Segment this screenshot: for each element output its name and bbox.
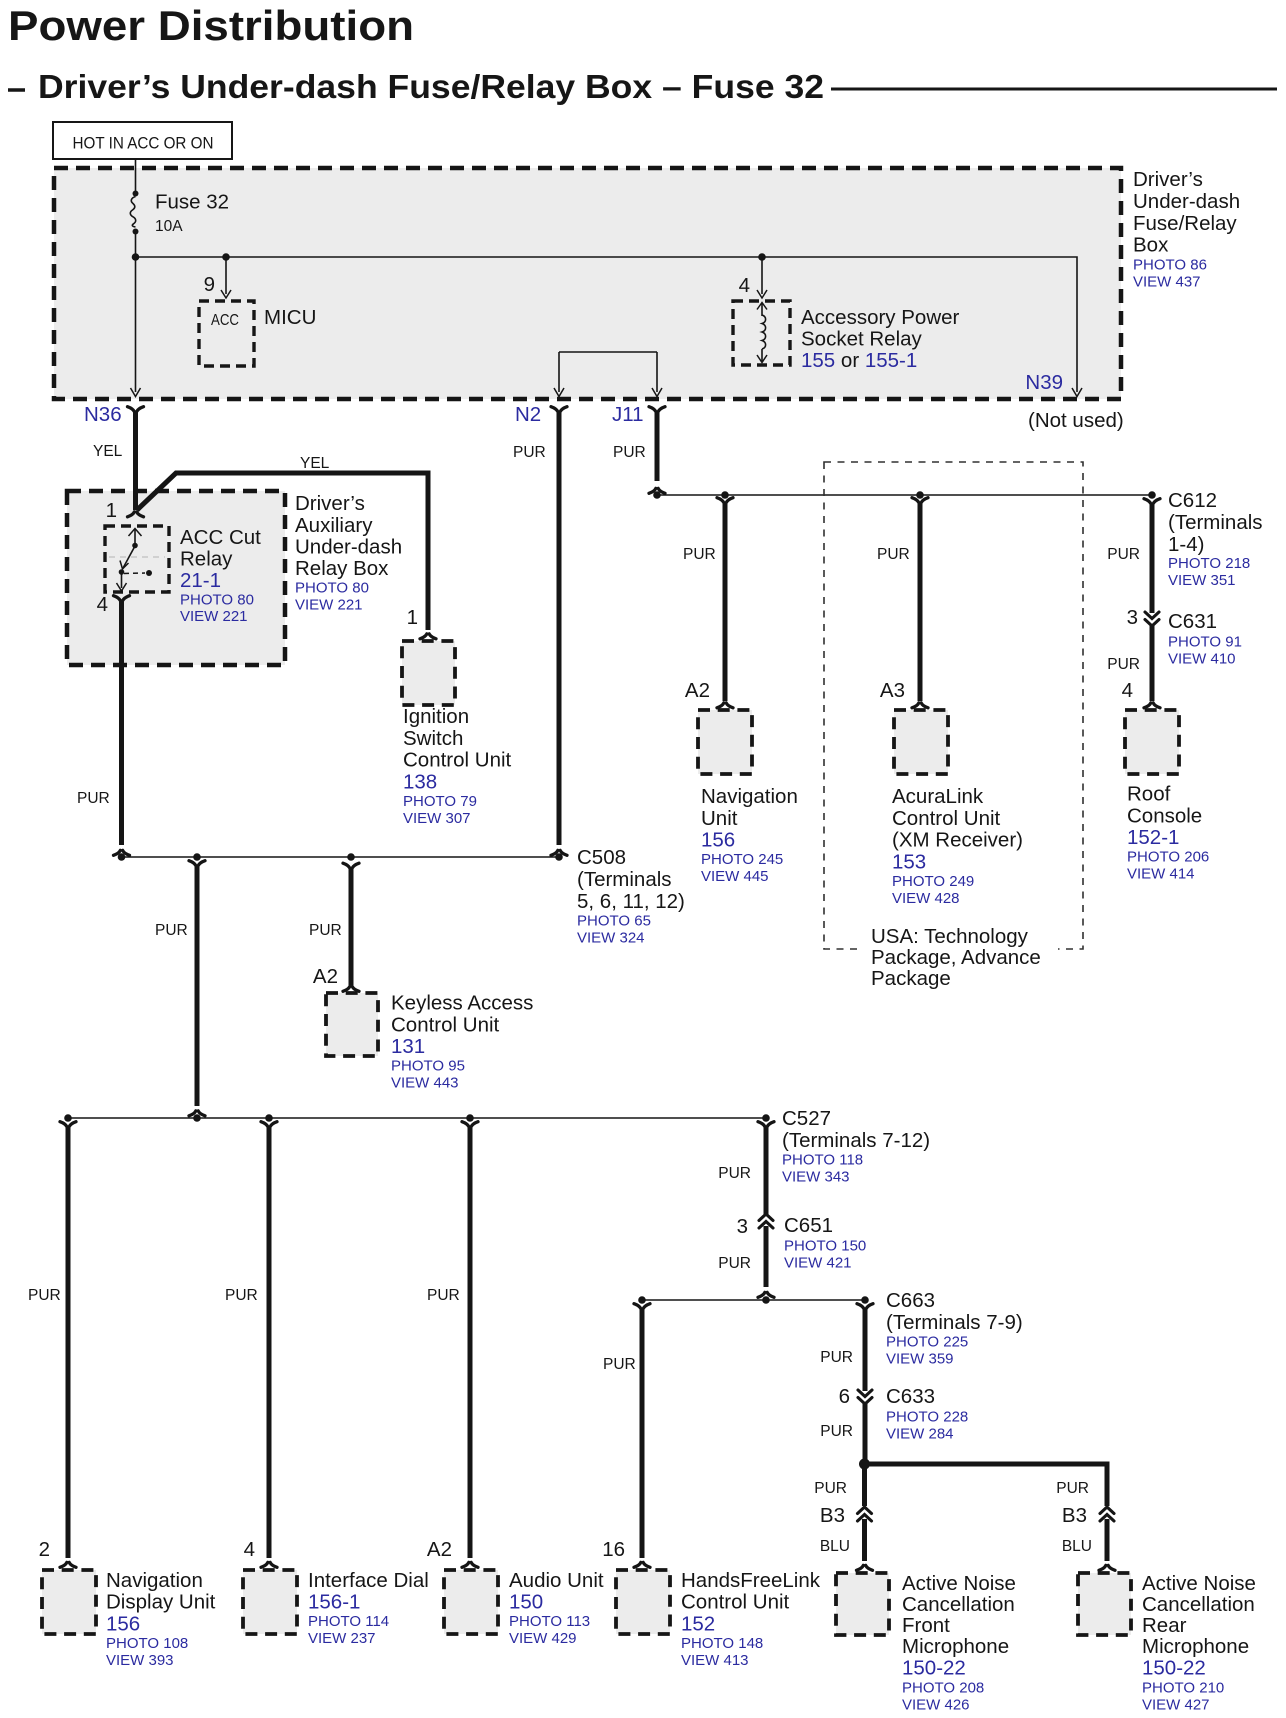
svg-text:VIEW 351: VIEW 351 bbox=[1168, 572, 1236, 589]
svg-text:Socket Relay: Socket Relay bbox=[801, 328, 923, 351]
svg-text:VIEW 437: VIEW 437 bbox=[1133, 274, 1201, 291]
svg-text:Package, Advance: Package, Advance bbox=[871, 946, 1041, 969]
svg-text:C631: C631 bbox=[1168, 610, 1217, 633]
svg-text:150-22: 150-22 bbox=[1142, 1657, 1206, 1680]
svg-text:VIEW 410: VIEW 410 bbox=[1168, 651, 1236, 668]
C527 labels bbox=[782, 1107, 930, 1186]
svg-text:VIEW 221: VIEW 221 bbox=[295, 597, 363, 614]
svg-text:VIEW 221: VIEW 221 bbox=[180, 608, 248, 625]
svg-text:A3: A3 bbox=[880, 679, 905, 702]
svg-text:150-22: 150-22 bbox=[902, 1657, 966, 1680]
svg-text:B3: B3 bbox=[820, 1504, 845, 1527]
svg-text:PHOTO 79: PHOTO 79 bbox=[403, 793, 477, 810]
svg-text:Ignition: Ignition bbox=[403, 705, 469, 728]
audio unit labels bbox=[509, 1569, 604, 1647]
accessory power socket relay branch wire bbox=[761, 257, 763, 294]
svg-text:(XM Receiver): (XM Receiver) bbox=[892, 829, 1023, 852]
svg-text:PHOTO 208: PHOTO 208 bbox=[902, 1680, 984, 1697]
svg-text:6: 6 bbox=[839, 1385, 850, 1408]
svg-text:VIEW 421: VIEW 421 bbox=[784, 1255, 852, 1272]
svg-text:A2: A2 bbox=[427, 1538, 452, 1561]
svg-text:Box: Box bbox=[1133, 234, 1169, 257]
svg-text:ACC Cut: ACC Cut bbox=[180, 526, 261, 549]
svg-text:BLU: BLU bbox=[1062, 1538, 1092, 1555]
C651 labels bbox=[784, 1214, 866, 1272]
svg-text:(Terminals 7-12): (Terminals 7-12) bbox=[782, 1129, 930, 1152]
svg-text:VIEW 426: VIEW 426 bbox=[902, 1697, 970, 1714]
svg-text:PHOTO 95: PHOTO 95 bbox=[391, 1058, 465, 1075]
svg-text:PUR: PUR bbox=[427, 1287, 460, 1304]
svg-text:HandsFreeLink: HandsFreeLink bbox=[681, 1569, 821, 1592]
junction dot (navigation unit branch) bbox=[721, 491, 729, 499]
wire J11 down to junction (PUR) bbox=[655, 412, 660, 481]
end fork at handsfreelink unit bbox=[634, 1562, 650, 1567]
svg-text:Package: Package bbox=[871, 967, 951, 990]
svg-text:Navigation: Navigation bbox=[106, 1569, 203, 1592]
svg-text:PUR: PUR bbox=[28, 1287, 61, 1304]
svg-text:J11: J11 bbox=[612, 403, 644, 426]
svg-text:Under-dash: Under-dash bbox=[295, 536, 402, 559]
svg-text:Microphone: Microphone bbox=[1142, 1635, 1249, 1658]
wire pin 4 down to C508 bus (PUR) bbox=[119, 601, 124, 845]
svg-text:Cancellation: Cancellation bbox=[1142, 1593, 1255, 1616]
MICU box (dashed) bbox=[199, 301, 254, 366]
svg-text:156: 156 bbox=[701, 829, 735, 852]
junction bus dots bbox=[638, 1296, 646, 1304]
svg-text:PHOTO 65: PHOTO 65 bbox=[577, 913, 651, 930]
svg-text:4: 4 bbox=[739, 274, 750, 297]
wire down from C612 (PUR) bbox=[1150, 504, 1155, 613]
active noise cancellation front microphone box bbox=[836, 1573, 889, 1635]
svg-text:VIEW 284: VIEW 284 bbox=[886, 1426, 954, 1443]
svg-text:Console: Console bbox=[1127, 804, 1202, 827]
aux relay box labels bbox=[295, 492, 402, 614]
svg-text:Display Unit: Display Unit bbox=[106, 1591, 216, 1614]
svg-text:5, 6, 11, 12): 5, 6, 11, 12) bbox=[577, 890, 685, 913]
roof console labels bbox=[1127, 783, 1209, 883]
svg-text:Active Noise: Active Noise bbox=[902, 1572, 1016, 1595]
svg-text:(Terminals: (Terminals bbox=[1168, 511, 1263, 534]
connector B3 front (chevrons up) bbox=[858, 1507, 872, 1521]
svg-text:1-4): 1-4) bbox=[1168, 533, 1204, 556]
svg-text:Microphone: Microphone bbox=[902, 1635, 1009, 1658]
svg-text:PHOTO 118: PHOTO 118 bbox=[782, 1152, 863, 1169]
drop fork at x=197 bbox=[189, 861, 205, 866]
navigation unit labels bbox=[701, 785, 798, 885]
internal loop connecting N2 and J11 bbox=[559, 351, 657, 353]
wire C631 to roof console (PUR) bbox=[1150, 625, 1155, 701]
connector B3 rear (chevrons up) bbox=[1100, 1507, 1114, 1521]
svg-text:156-1: 156-1 bbox=[308, 1591, 360, 1614]
svg-text:PUR: PUR bbox=[718, 1165, 751, 1182]
wire down to audio unit (PUR) bbox=[468, 1127, 473, 1558]
svg-text:156: 156 bbox=[106, 1612, 140, 1635]
svg-text:PUR: PUR bbox=[877, 546, 910, 563]
ACC cut relay labels bbox=[180, 526, 261, 625]
ignition switch control unit labels bbox=[403, 705, 512, 827]
svg-text:PUR: PUR bbox=[820, 1349, 853, 1366]
ignition switch control unit box bbox=[402, 641, 455, 705]
svg-text:Active Noise: Active Noise bbox=[1142, 1572, 1256, 1595]
svg-text:21-1: 21-1 bbox=[180, 569, 221, 592]
HOT IN ACC OR ON box bbox=[53, 122, 232, 159]
end fork at navigation unit bbox=[717, 703, 733, 708]
drop fork at x=642 bbox=[634, 1304, 650, 1309]
svg-text:Fuse/Relay: Fuse/Relay bbox=[1133, 212, 1237, 235]
mic junction dot bbox=[859, 1459, 870, 1470]
end fork N2 onto C508 bus bbox=[551, 850, 567, 855]
active noise cancellation rear microphone box bbox=[1078, 1573, 1131, 1635]
svg-text:Accessory Power: Accessory Power bbox=[801, 306, 960, 329]
svg-text:A2: A2 bbox=[685, 679, 710, 702]
drop fork at x=351 (keyless) bbox=[343, 863, 359, 868]
ACC cut relay box (dashed) bbox=[105, 526, 169, 592]
svg-text:A2: A2 bbox=[313, 965, 338, 988]
connector N2 fork bbox=[551, 407, 567, 412]
navigation display unit labels bbox=[106, 1569, 216, 1669]
junction dot at MICU branch bbox=[222, 253, 230, 261]
svg-text:Auxiliary: Auxiliary bbox=[295, 514, 373, 537]
svg-text:PUR: PUR bbox=[1056, 1480, 1089, 1497]
svg-text:PHOTO 148: PHOTO 148 bbox=[681, 1635, 763, 1652]
svg-text:PHOTO 210: PHOTO 210 bbox=[1142, 1680, 1224, 1697]
Driver's Under-dash Fuse/Relay Box (dashed grey box) bbox=[54, 168, 1121, 399]
svg-text:MICU: MICU bbox=[264, 306, 316, 329]
end fork at rear mic bbox=[1099, 1565, 1115, 1570]
fuse/relay box label bbox=[1133, 168, 1240, 291]
svg-text:PHOTO 228: PHOTO 228 bbox=[886, 1409, 968, 1426]
C631 labels bbox=[1168, 610, 1242, 668]
wire down to interface dial (PUR) bbox=[267, 1127, 272, 1558]
ACC cut relay internals: switch bbox=[109, 529, 165, 592]
svg-text:N36: N36 bbox=[84, 403, 122, 426]
connector C633 (inline, chevrons down) bbox=[858, 1390, 872, 1404]
white patch behind USA caption bbox=[860, 926, 1058, 992]
svg-text:Keyless Access: Keyless Access bbox=[391, 992, 533, 1015]
svg-text:PHOTO 80: PHOTO 80 bbox=[295, 580, 369, 597]
navigation display unit box bbox=[42, 1570, 96, 1634]
svg-text:C527: C527 bbox=[782, 1107, 831, 1130]
wire from bus down to N36 exit bbox=[135, 257, 137, 392]
USA technology package dashed box bbox=[824, 462, 1083, 949]
svg-text:16: 16 bbox=[602, 1538, 625, 1561]
connector N36 fork bbox=[128, 407, 144, 412]
end fork at keyless box bbox=[343, 986, 359, 991]
fuse 32 symbol bbox=[130, 191, 138, 235]
svg-text:PHOTO 206: PHOTO 206 bbox=[1127, 849, 1209, 866]
front microphone labels bbox=[902, 1572, 1016, 1714]
acuralink drop fork bbox=[912, 498, 928, 503]
wire down to C633 (PUR) bbox=[863, 1309, 868, 1391]
end fork at front mic bbox=[857, 1565, 873, 1570]
svg-text:PUR: PUR bbox=[683, 546, 716, 563]
svg-text:131: 131 bbox=[391, 1035, 425, 1058]
drop fork at x=470 bbox=[462, 1122, 478, 1127]
wire B3 to front mic (BLU) bbox=[862, 1519, 867, 1561]
wire C633 down to mic junction (PUR) bbox=[863, 1403, 868, 1464]
junction dot at relay branch bbox=[758, 253, 766, 261]
svg-text:3: 3 bbox=[737, 1215, 748, 1238]
junction dot (acuralink branch) bbox=[916, 491, 924, 499]
svg-text:PUR: PUR bbox=[603, 1356, 636, 1373]
MICU branch wire bbox=[225, 257, 227, 294]
svg-text:153: 153 bbox=[892, 850, 926, 873]
front branch wire down (PUR) bbox=[862, 1464, 867, 1506]
svg-text:PHOTO 80: PHOTO 80 bbox=[180, 592, 254, 609]
navigation unit drop fork bbox=[717, 498, 733, 503]
svg-text:1: 1 bbox=[407, 606, 418, 629]
end fork onto C508 bus bbox=[114, 850, 130, 855]
audio unit box bbox=[444, 1570, 498, 1634]
svg-text:PUR: PUR bbox=[77, 790, 110, 807]
drop fork at x=269 bbox=[261, 1122, 277, 1127]
svg-text:VIEW 428: VIEW 428 bbox=[892, 890, 960, 907]
end fork at navigation display unit bbox=[60, 1562, 76, 1567]
svg-text:PHOTO 114: PHOTO 114 bbox=[308, 1613, 389, 1630]
roof console box bbox=[1125, 710, 1179, 774]
end fork onto junction bus bbox=[758, 1292, 774, 1297]
svg-text:150: 150 bbox=[509, 1591, 543, 1614]
svg-text:PUR: PUR bbox=[1107, 546, 1140, 563]
svg-text:YEL: YEL bbox=[93, 443, 123, 460]
wire down to handsfreelink control unit (PUR) bbox=[640, 1309, 645, 1558]
svg-text:Control Unit: Control Unit bbox=[681, 1591, 790, 1614]
svg-text:4: 4 bbox=[97, 593, 108, 616]
relay coil symbol bbox=[757, 303, 767, 363]
svg-text:VIEW 307: VIEW 307 bbox=[403, 810, 471, 827]
connector J11 fork bbox=[649, 407, 665, 412]
acuralink labels bbox=[892, 785, 1023, 907]
end fork at pin 1 bbox=[128, 512, 144, 517]
svg-text:USA: Technology: USA: Technology bbox=[871, 925, 1029, 948]
wire C651 down to junction bus (PUR) bbox=[764, 1226, 769, 1287]
svg-text:PUR: PUR bbox=[613, 444, 646, 461]
wire down to navigation unit (PUR) bbox=[723, 503, 728, 701]
svg-text:PHOTO 225: PHOTO 225 bbox=[886, 1334, 968, 1351]
C508 bus line bbox=[122, 856, 560, 858]
handsfreelink control unit box bbox=[616, 1570, 670, 1634]
wire down to navigation display unit (PUR) bbox=[66, 1127, 71, 1558]
subtitle dash bbox=[8, 88, 25, 91]
arrowhead at relay box bbox=[757, 290, 767, 298]
svg-text:VIEW 427: VIEW 427 bbox=[1142, 1697, 1210, 1714]
C633 labels bbox=[886, 1385, 968, 1443]
svg-text:2: 2 bbox=[39, 1538, 50, 1561]
wire from HOT box to fuse bbox=[135, 159, 137, 193]
svg-text:C612: C612 bbox=[1168, 489, 1217, 512]
svg-text:PUR: PUR bbox=[513, 444, 546, 461]
interface dial labels bbox=[308, 1569, 429, 1647]
arrowhead at N2 exit bbox=[554, 388, 564, 397]
svg-text:VIEW 414: VIEW 414 bbox=[1127, 866, 1195, 883]
svg-text:C663: C663 bbox=[886, 1289, 935, 1312]
svg-text:YEL: YEL bbox=[300, 455, 330, 472]
svg-text:Driver’s Under-dash Fuse/Relay: Driver’s Under-dash Fuse/Relay Box – Fus… bbox=[38, 69, 824, 106]
svg-text:C633: C633 bbox=[886, 1385, 935, 1408]
svg-text:Interface Dial: Interface Dial bbox=[308, 1569, 429, 1592]
J11 node dot bbox=[653, 491, 661, 499]
wire C527 down to C651 (PUR) bbox=[764, 1127, 769, 1215]
svg-text:PHOTO 113: PHOTO 113 bbox=[509, 1613, 590, 1630]
svg-text:PHOTO 86: PHOTO 86 bbox=[1133, 257, 1207, 274]
svg-text:Relay Box: Relay Box bbox=[295, 557, 389, 580]
svg-text:(Terminals: (Terminals bbox=[577, 868, 672, 891]
svg-text:138: 138 bbox=[403, 770, 437, 793]
svg-text:PUR: PUR bbox=[814, 1480, 847, 1497]
wire down to keyless access control unit (PUR) bbox=[349, 869, 354, 986]
svg-text:PUR: PUR bbox=[309, 922, 342, 939]
svg-text:PUR: PUR bbox=[718, 1255, 751, 1272]
end fork at acuralink unit bbox=[912, 703, 928, 708]
svg-text:Relay: Relay bbox=[180, 548, 233, 571]
svg-text:AcuraLink: AcuraLink bbox=[892, 785, 984, 808]
svg-text:VIEW 443: VIEW 443 bbox=[391, 1075, 459, 1092]
svg-text:Fuse 32: Fuse 32 bbox=[155, 191, 229, 214]
wire from C508 bus down to C527 bus (PUR) bbox=[195, 866, 200, 1106]
svg-text:VIEW 324: VIEW 324 bbox=[577, 930, 645, 947]
subtitle trailing rule bbox=[831, 88, 1277, 91]
arrowhead at N36 box edge bbox=[131, 388, 141, 397]
YEL branch wire to ignition switch control unit bbox=[137, 473, 428, 630]
svg-text:Audio Unit: Audio Unit bbox=[509, 1569, 604, 1592]
C612 labels bbox=[1168, 489, 1263, 589]
wire from fuse to main bus bbox=[135, 234, 137, 257]
svg-text:Switch: Switch bbox=[403, 727, 463, 750]
svg-text:Roof: Roof bbox=[1127, 783, 1171, 806]
thick wire to rear microphone branch bbox=[865, 1464, 1108, 1506]
svg-text:PHOTO 218: PHOTO 218 bbox=[1168, 555, 1250, 572]
handsfreelink labels bbox=[681, 1569, 821, 1669]
keyless access control unit box bbox=[326, 993, 378, 1056]
C527 bus line bbox=[68, 1117, 766, 1119]
svg-text:Cancellation: Cancellation bbox=[902, 1593, 1015, 1616]
drop fork at x=865 (C663) bbox=[857, 1304, 873, 1309]
svg-text:Navigation: Navigation bbox=[701, 785, 798, 808]
svg-text:PUR: PUR bbox=[155, 922, 188, 939]
arrowhead N39 at box edge bbox=[1072, 388, 1082, 397]
svg-text:3: 3 bbox=[1127, 606, 1138, 629]
svg-text:Driver’s: Driver’s bbox=[295, 492, 365, 515]
main bus from fuse across box, turning down at right (N39) bbox=[136, 257, 1078, 392]
C508 bus dots bbox=[118, 853, 126, 861]
svg-text:VIEW 237: VIEW 237 bbox=[308, 1630, 376, 1647]
junction dot (C612 branch) bbox=[1148, 491, 1156, 499]
svg-text:PUR: PUR bbox=[820, 1423, 853, 1440]
junction dot at fuse bbox=[132, 253, 140, 261]
svg-text:152: 152 bbox=[681, 1612, 715, 1635]
svg-text:HOT IN ACC OR ON: HOT IN ACC OR ON bbox=[73, 134, 214, 153]
svg-text:VIEW 413: VIEW 413 bbox=[681, 1652, 749, 1669]
svg-text:VIEW 393: VIEW 393 bbox=[106, 1652, 174, 1669]
svg-text:B3: B3 bbox=[1062, 1504, 1087, 1527]
svg-text:BLU: BLU bbox=[820, 1538, 850, 1555]
J11 horizontal bus to C612 bbox=[657, 494, 1152, 496]
svg-text:C651: C651 bbox=[784, 1214, 833, 1237]
end fork J11 bbox=[649, 488, 665, 493]
svg-text:155 or 155-1: 155 or 155-1 bbox=[801, 349, 917, 372]
svg-text:PUR: PUR bbox=[1107, 656, 1140, 673]
C663 labels bbox=[886, 1289, 1023, 1368]
svg-text:(Not used): (Not used) bbox=[1028, 409, 1124, 432]
acuralink control unit box bbox=[894, 710, 948, 774]
svg-text:4: 4 bbox=[244, 1538, 255, 1561]
connector C651 (inline, chevrons up) bbox=[759, 1214, 773, 1228]
svg-text:(Terminals 7-9): (Terminals 7-9) bbox=[886, 1311, 1023, 1334]
right exit fork at x=766 bbox=[758, 1122, 774, 1127]
svg-text:PHOTO 150: PHOTO 150 bbox=[784, 1238, 866, 1255]
accessory power socket relay box (dashed) bbox=[733, 301, 790, 365]
svg-text:Rear: Rear bbox=[1142, 1614, 1187, 1637]
pin 4 fork bbox=[114, 596, 130, 601]
svg-text:Control Unit: Control Unit bbox=[391, 1013, 500, 1036]
svg-text:Driver’s: Driver’s bbox=[1133, 168, 1203, 191]
end fork at roof console bbox=[1144, 703, 1160, 708]
arrowhead at J11 exit bbox=[652, 388, 662, 397]
end fork at audio unit bbox=[462, 1562, 478, 1567]
svg-text:PHOTO 108: PHOTO 108 bbox=[106, 1635, 188, 1652]
svg-text:Power Distribution: Power Distribution bbox=[8, 2, 414, 49]
svg-text:PHOTO 91: PHOTO 91 bbox=[1168, 634, 1242, 651]
svg-text:Control Unit: Control Unit bbox=[892, 807, 1001, 830]
svg-text:PHOTO 249: PHOTO 249 bbox=[892, 873, 974, 890]
svg-text:Unit: Unit bbox=[701, 807, 738, 830]
svg-text:VIEW 343: VIEW 343 bbox=[782, 1169, 850, 1186]
rear microphone labels bbox=[1142, 1572, 1256, 1714]
junction bus line bbox=[642, 1299, 865, 1301]
drop fork at x=68 bbox=[60, 1122, 76, 1127]
svg-text:PHOTO 245: PHOTO 245 bbox=[701, 851, 783, 868]
interface dial box bbox=[243, 1570, 297, 1634]
svg-text:ACC: ACC bbox=[211, 312, 239, 329]
end fork at ignition unit bbox=[420, 634, 436, 639]
svg-text:VIEW 429: VIEW 429 bbox=[509, 1630, 577, 1647]
navigation unit box bbox=[698, 710, 752, 774]
end fork onto C527 bus bbox=[189, 1111, 205, 1116]
svg-text:Front: Front bbox=[902, 1614, 950, 1637]
svg-text:VIEW 359: VIEW 359 bbox=[886, 1351, 954, 1368]
svg-text:Under-dash: Under-dash bbox=[1133, 190, 1240, 213]
svg-text:PUR: PUR bbox=[225, 1287, 258, 1304]
driver's auxiliary under-dash relay box (dashed grey) bbox=[67, 491, 285, 665]
svg-text:N2: N2 bbox=[515, 403, 541, 426]
svg-text:4: 4 bbox=[1122, 679, 1133, 702]
svg-text:Control Unit: Control Unit bbox=[403, 749, 512, 772]
svg-text:9: 9 bbox=[204, 273, 215, 296]
wire N36 to ACC cut relay pin 1 (YEL) bbox=[133, 412, 138, 510]
svg-text:C508: C508 bbox=[577, 846, 626, 869]
svg-text:1: 1 bbox=[106, 499, 117, 522]
svg-text:VIEW 445: VIEW 445 bbox=[701, 868, 769, 885]
wire B3 to rear mic (BLU) bbox=[1105, 1519, 1110, 1561]
wire N2 down to C508 bus (PUR) bbox=[557, 412, 562, 845]
C612 drop fork bbox=[1144, 499, 1160, 504]
wire down to acuralink control unit (PUR) bbox=[918, 503, 923, 701]
svg-text:10A: 10A bbox=[155, 218, 183, 235]
C527 bus dots bbox=[64, 1114, 72, 1122]
C508 labels bbox=[577, 846, 685, 947]
keyless access labels bbox=[391, 992, 533, 1092]
svg-text:N39: N39 bbox=[1025, 371, 1063, 394]
svg-text:152-1: 152-1 bbox=[1127, 826, 1179, 849]
connector C631 (inline, chevrons down) bbox=[1145, 612, 1159, 626]
USA package caption bbox=[871, 925, 1041, 990]
arrowhead at MICU box bbox=[221, 290, 231, 298]
end fork at interface dial bbox=[261, 1562, 277, 1567]
